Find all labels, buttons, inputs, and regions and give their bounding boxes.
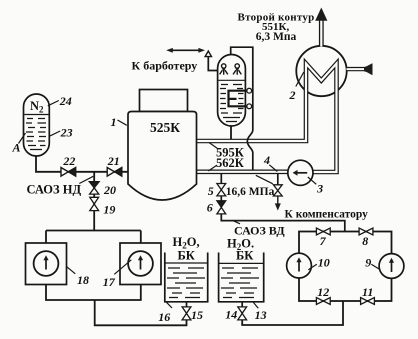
svg-text:17: 17: [103, 275, 116, 289]
svg-text:22: 22: [62, 154, 75, 168]
svg-text:20: 20: [103, 183, 116, 197]
svg-text:16,6 МПа: 16,6 МПа: [226, 186, 275, 198]
svg-text:5: 5: [208, 184, 214, 198]
svg-text:3: 3: [316, 181, 323, 195]
svg-text:К компенсатору: К компенсатору: [285, 208, 369, 220]
svg-text:18: 18: [77, 273, 89, 287]
svg-text:525К: 525К: [150, 120, 180, 135]
svg-text:САОЗ НД: САОЗ НД: [27, 182, 82, 196]
svg-text:13: 13: [255, 308, 267, 322]
svg-text:6,3 Мпа: 6,3 Мпа: [256, 31, 297, 43]
svg-text:А: А: [11, 140, 20, 154]
svg-text:САОЗ ВД: САОЗ ВД: [234, 223, 285, 237]
svg-text:15: 15: [191, 308, 203, 322]
svg-text:14: 14: [225, 307, 237, 321]
svg-text:16: 16: [158, 310, 170, 324]
svg-text:8: 8: [362, 234, 368, 248]
svg-text:К барботеру: К барботеру: [132, 58, 198, 72]
svg-text:562К: 562К: [216, 156, 244, 170]
svg-text:9: 9: [365, 255, 371, 269]
svg-text:21: 21: [107, 154, 120, 168]
svg-text:БК: БК: [178, 249, 195, 263]
svg-text:12: 12: [317, 285, 329, 299]
svg-text:7: 7: [320, 234, 327, 248]
svg-text:11: 11: [362, 285, 373, 299]
svg-text:10: 10: [318, 255, 330, 269]
svg-text:4: 4: [263, 153, 270, 167]
svg-text:23: 23: [60, 125, 73, 139]
svg-text:24: 24: [59, 94, 72, 108]
svg-text:6: 6: [207, 200, 213, 214]
svg-text:19: 19: [103, 202, 115, 216]
svg-text:2: 2: [289, 88, 296, 102]
svg-text:БК: БК: [236, 249, 253, 263]
svg-text:1: 1: [111, 115, 117, 129]
